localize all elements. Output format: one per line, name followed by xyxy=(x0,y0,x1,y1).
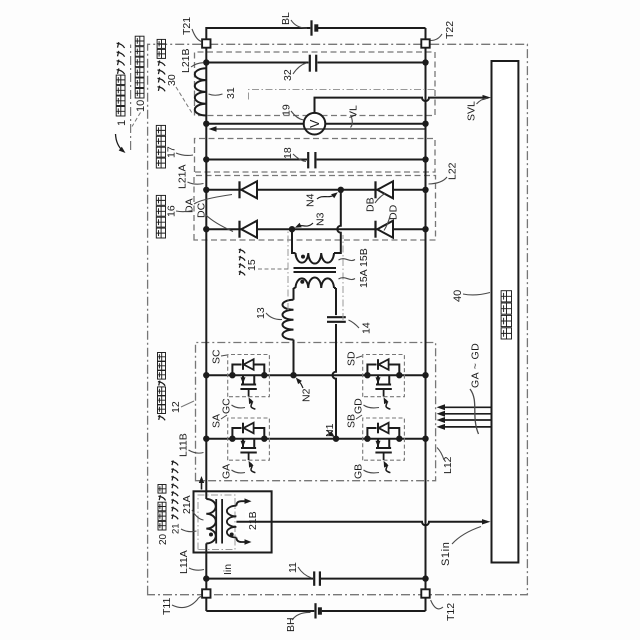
voltmeter 19 xyxy=(304,113,326,135)
svg-text:12: 12 xyxy=(170,401,182,413)
leader 19 xyxy=(291,111,304,120)
dash-dot box: power conversion device 10 xyxy=(148,44,528,594)
leader 16 xyxy=(176,211,193,212)
svg-text:GC: GC xyxy=(221,398,233,414)
leader SD xyxy=(356,356,362,358)
leader 17 xyxy=(176,153,193,155)
svg-text:T12: T12 xyxy=(445,603,457,621)
svg-text:19: 19 xyxy=(281,104,293,116)
wire: BL battery branch xyxy=(206,28,425,40)
wire: capacitor 11 branch xyxy=(206,578,425,580)
svg-text:SVL: SVL xyxy=(466,101,478,121)
svg-text:GA ~ GD: GA ~ GD xyxy=(470,343,482,388)
leader BH xyxy=(292,612,311,620)
svg-text:L11B: L11B xyxy=(178,433,190,457)
svg-text:GA: GA xyxy=(221,464,233,479)
svg-text:GD: GD xyxy=(353,398,365,414)
svg-text:N3: N3 xyxy=(315,212,327,226)
terminal T12 xyxy=(421,589,429,597)
svg-text:DC: DC xyxy=(196,202,208,218)
node: cap18 top xyxy=(203,156,209,162)
diode DC xyxy=(238,221,240,238)
switch cell SA (MOSFET + diode) xyxy=(228,418,270,460)
Iin current arrow xyxy=(201,480,203,490)
terminal T22 xyxy=(421,39,429,47)
leader DA xyxy=(194,195,232,205)
svg-text:N4: N4 xyxy=(305,193,317,207)
svg-text:L21A: L21A xyxy=(177,164,189,189)
leader 10 dashed xyxy=(132,113,141,127)
node: cap32 top xyxy=(203,59,209,65)
leader 15B xyxy=(339,259,356,261)
svg-text:BL: BL xyxy=(280,12,292,25)
svg-text:SB: SB xyxy=(346,414,358,428)
leader DD xyxy=(384,216,390,231)
svg-text:L21B: L21B xyxy=(180,48,192,73)
leader L11A xyxy=(189,568,204,570)
svg-text:SA: SA xyxy=(211,414,223,428)
leader SB xyxy=(356,415,362,419)
leader DC xyxy=(206,215,233,232)
wire: N1 line with hop over right column xyxy=(333,324,336,439)
leader N4 arrow xyxy=(317,195,335,199)
svg-text:GB: GB xyxy=(353,464,365,479)
transformer 15 primary winding 15A xyxy=(294,287,337,289)
wire: BH battery branch xyxy=(206,610,425,612)
svg-text:20: 20 xyxy=(158,533,169,545)
chain line below transformer xyxy=(342,235,344,320)
leader N3 arrow xyxy=(298,223,314,226)
leader 30 dashed xyxy=(176,87,192,113)
leader SA xyxy=(221,415,227,419)
leader 12 xyxy=(181,401,194,407)
wire: N2 to inductor 13 xyxy=(293,340,295,376)
wire: rectifier left leg (DC/DD) xyxy=(206,228,425,230)
leader BL xyxy=(291,20,307,28)
leader 21A xyxy=(192,510,204,520)
node: cap32 bottom xyxy=(422,59,428,65)
leader VL xyxy=(351,117,353,128)
inductor winding 21A on top rail xyxy=(206,499,215,543)
label transformer 15 xyxy=(239,271,245,276)
wire: secondary bottom to node N4 with hop over left leg xyxy=(336,190,341,253)
svg-text:15: 15 xyxy=(246,259,258,271)
polarity dot 15A xyxy=(300,280,304,284)
transformer 15 secondary winding 15B xyxy=(294,252,337,254)
gate drive lines GA-GD xyxy=(441,426,492,428)
switch cell SD (MOSFET + diode) xyxy=(363,355,405,397)
inductor 31 on top rail xyxy=(195,68,207,115)
chain segment upper right (system boundary) xyxy=(130,45,132,151)
terminal T21 xyxy=(202,39,210,47)
capacitor 11 xyxy=(313,571,315,585)
leader T21 xyxy=(192,29,202,42)
leader L21B xyxy=(191,63,204,67)
node N3 xyxy=(289,226,295,232)
leader SVL xyxy=(477,98,488,104)
leader 40 xyxy=(463,293,490,295)
leader 18 xyxy=(293,154,306,162)
svg-text:SC: SC xyxy=(211,349,223,364)
wire: inductor 13 to transformer primary xyxy=(293,288,295,300)
node: leg/bottom-rail junction xyxy=(422,187,428,193)
wire: left bridge column (SA/SB leg) xyxy=(206,438,425,440)
wire: top line L11A/L21A (top rail) xyxy=(205,47,207,611)
dash-dot box: current transformer 21 xyxy=(198,495,235,550)
svg-text:BH: BH xyxy=(285,617,297,632)
svg-text:N2: N2 xyxy=(301,388,313,402)
capacitor 14 xyxy=(327,321,346,323)
label filter circuit 30 xyxy=(158,86,166,92)
svg-text:10: 10 xyxy=(135,100,147,112)
wire: bottom line L12/L22 (bottom rail) xyxy=(425,47,427,611)
leader GB xyxy=(364,470,380,473)
transformer core of CT 21 xyxy=(215,499,217,544)
node: SD lower junction xyxy=(396,372,402,378)
node: column/top-rail junction xyxy=(203,372,209,378)
diode DB xyxy=(374,181,376,198)
capacitor 32 xyxy=(309,55,311,72)
node: cap 11 bottom junction xyxy=(422,575,428,581)
svg-text:21: 21 xyxy=(171,523,182,534)
svg-text:DB: DB xyxy=(365,197,377,212)
leader L11B xyxy=(189,450,204,453)
diode DA xyxy=(238,181,240,198)
label 21B xyxy=(245,511,258,531)
wire: SVL signal line with hop over bottom rail xyxy=(315,98,488,113)
node: voltmeter bottom xyxy=(422,121,428,127)
leader 31 xyxy=(209,94,223,95)
dashed box: rectifier circuit 16 xyxy=(194,176,436,241)
leader T22 xyxy=(431,34,443,41)
wire: secondary top to node N3 xyxy=(292,229,294,253)
svg-text:40: 40 xyxy=(452,290,464,302)
node: leg/top-rail junction xyxy=(203,226,209,232)
inductor 13 xyxy=(282,300,293,340)
label switching circuit 12 xyxy=(158,415,165,420)
svg-text:13: 13 xyxy=(255,307,267,319)
node: SC lower junction xyxy=(261,372,267,378)
svg-text:L22: L22 xyxy=(447,162,459,180)
node: column/bottom-rail junction xyxy=(422,436,428,442)
leader L21A xyxy=(188,182,204,184)
node: SD upper junction xyxy=(364,372,370,378)
leader GD xyxy=(364,405,380,408)
node N4 xyxy=(338,187,344,193)
polarity dot 21A xyxy=(209,533,213,537)
wire: right bridge column (SC/SD leg) xyxy=(206,374,425,376)
node: column/bottom-rail junction xyxy=(422,372,428,378)
svg-text:Iin: Iin xyxy=(222,564,234,575)
winding 21B of current transformer xyxy=(236,538,248,543)
svg-text:T11: T11 xyxy=(161,598,173,615)
switch cell SB (MOSFET + diode) xyxy=(363,418,405,460)
svg-text:21B: 21B xyxy=(247,511,259,530)
leader 14 xyxy=(349,320,360,328)
svg-text:31: 31 xyxy=(225,87,237,99)
node: SA upper junction xyxy=(229,436,235,442)
switch cell SC (MOSFET + diode) xyxy=(228,355,270,397)
wire: S1in signal line with hop over bottom rail xyxy=(236,522,487,526)
leader GA-GD wavy xyxy=(470,389,479,434)
node: column/top-rail junction xyxy=(203,436,209,442)
node: cap18 bottom xyxy=(422,156,428,162)
svg-text:T22: T22 xyxy=(444,21,456,39)
node: voltmeter top xyxy=(203,121,209,127)
terminal T11 xyxy=(202,589,210,597)
chain line above transformer xyxy=(287,230,289,310)
capacitor 18 xyxy=(307,152,309,168)
leader 13 xyxy=(266,313,282,320)
leader T11 xyxy=(172,597,202,608)
wire: rectifier right leg (DA/DB) xyxy=(206,189,425,191)
node: SB lower junction xyxy=(396,436,402,442)
svg-text:15A 15B: 15A 15B xyxy=(358,248,370,288)
wire: capacitor 18 branch xyxy=(206,159,425,161)
battery BH xyxy=(314,603,316,618)
svg-text:VL: VL xyxy=(348,105,360,118)
svg-text:L11A: L11A xyxy=(178,550,190,574)
svg-text:18: 18 xyxy=(282,147,294,159)
leader 15A xyxy=(339,278,356,280)
svg-text:16: 16 xyxy=(166,205,178,217)
dashed box: switching circuit 12 xyxy=(196,343,436,481)
current sensor 20 box xyxy=(194,491,272,552)
leader 32 xyxy=(293,63,307,74)
leader GC xyxy=(232,405,246,408)
label smoothing circuit 17 xyxy=(156,158,165,168)
svg-text:V: V xyxy=(308,119,322,128)
dashed box: filter circuit 30 xyxy=(195,52,436,116)
leader 15 dashed xyxy=(258,268,289,270)
leader SC xyxy=(221,355,227,356)
node: leg/top-rail junction xyxy=(203,187,209,193)
node: cap 11 top junction xyxy=(203,575,209,581)
polarity dot 15B xyxy=(301,255,305,259)
svg-text:32: 32 xyxy=(282,69,294,81)
battery BL xyxy=(310,20,312,35)
dashed box: smoothing circuit 17 xyxy=(195,139,436,173)
leader S1in xyxy=(452,527,481,545)
polarity dot 21B xyxy=(230,533,234,537)
diode DD xyxy=(374,221,376,238)
leader T12 xyxy=(431,600,443,609)
leader L12 xyxy=(437,448,444,461)
svg-text:30: 30 xyxy=(166,74,178,86)
svg-text:SD: SD xyxy=(346,351,358,366)
node: leg/bottom-rail junction xyxy=(422,226,428,232)
node N2 junction xyxy=(290,372,296,378)
svg-text:14: 14 xyxy=(361,322,373,334)
node: SB upper junction xyxy=(364,436,370,442)
leader N2 arrow xyxy=(298,380,304,389)
leader L22 xyxy=(429,177,448,184)
wire: voltmeter branch xyxy=(206,123,425,125)
control circuit 40 box xyxy=(492,61,519,563)
transformer core xyxy=(294,271,337,273)
svg-text:1: 1 xyxy=(116,120,128,126)
node: SC upper junction xyxy=(229,372,235,378)
wire: capacitor 32 branch xyxy=(206,62,425,64)
node: SA lower junction xyxy=(261,436,267,442)
wire: capacitor 14 to transformer primary bottom xyxy=(335,288,337,315)
svg-text:S1in: S1in xyxy=(440,542,452,566)
label control circuit xyxy=(501,328,511,339)
leader arrow 1 xyxy=(116,134,124,151)
leader N1 arrow xyxy=(327,430,333,436)
leader 11 xyxy=(298,567,312,578)
leader DB xyxy=(375,194,385,204)
leader GA xyxy=(232,470,246,473)
svg-text:T21: T21 xyxy=(181,17,193,35)
chain segment right of SVL line xyxy=(249,90,436,100)
svg-text:11: 11 xyxy=(287,562,299,573)
VL measurement arrow line xyxy=(213,128,426,130)
label rectifier circuit 16 xyxy=(156,228,165,238)
leader 21 xyxy=(181,529,197,532)
node N1 junction xyxy=(333,436,339,442)
svg-text:21A: 21A xyxy=(181,495,193,514)
svg-text:17: 17 xyxy=(166,146,178,158)
